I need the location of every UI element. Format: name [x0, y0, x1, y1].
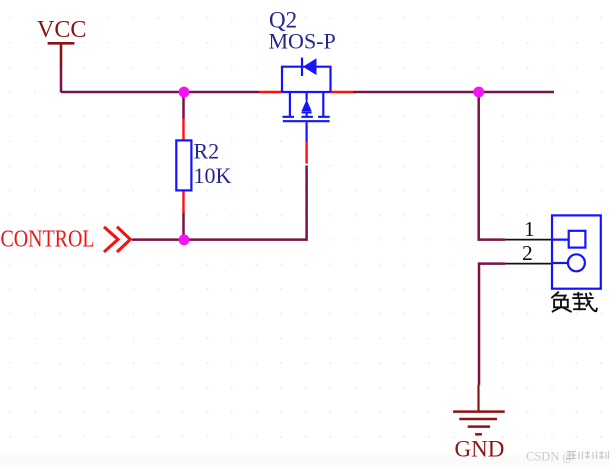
svg-text:CONTROL: CONTROL	[1, 226, 95, 252]
junction node rail/R2	[179, 87, 190, 98]
connector pin2 round contact	[552, 254, 585, 271]
watermark cjk squiggles	[567, 451, 609, 459]
connector pin 1 lead	[505, 239, 552, 241]
wire VCC to rail corner	[61, 66, 62, 91]
port CONTROL chevron	[104, 227, 130, 252]
connector pin 2 lead	[505, 263, 552, 265]
watermark strip	[0, 455, 609, 467]
ground symbol lead	[477, 385, 479, 412]
svg-text:GND: GND	[455, 437, 505, 462]
transistor Q2 MOS-P symbol	[282, 58, 331, 142]
wire main rail y=92 right of Q2	[353, 91, 554, 94]
wire resistor top to rail	[182, 92, 185, 119]
svg-text:MOS-P: MOS-P	[269, 28, 336, 53]
svg-text:10K: 10K	[194, 163, 232, 188]
wire pin 2 down to ground	[479, 264, 505, 385]
resistor R2 body	[176, 140, 191, 190]
junction node control/R2	[179, 234, 190, 245]
svg-text:2: 2	[522, 241, 533, 265]
connector J1 body	[552, 215, 601, 288]
power symbol VCC	[48, 43, 75, 66]
ground symbol GND bars	[453, 412, 505, 435]
svg-text:1: 1	[524, 217, 535, 241]
label 负载 (load) hand-drawn glyphs	[551, 292, 597, 312]
wire resistor bottom to control rail	[182, 213, 185, 240]
Q2 body-diode triangle	[303, 58, 317, 75]
wire right rail down to pin 1	[479, 92, 505, 240]
wire main rail y=92 left of Q2	[61, 91, 259, 94]
wire control row	[132, 166, 307, 240]
junction node rail/load	[473, 87, 484, 98]
svg-text:VCC: VCC	[37, 17, 86, 43]
svg-text:CSDN @: CSDN @	[526, 450, 574, 464]
Q2 bulk arrow	[302, 100, 312, 112]
resistor R2 pin leads	[182, 119, 184, 213]
connector pin1 square contact	[552, 231, 585, 248]
transistor Q2 pin leads (red)	[259, 92, 353, 164]
svg-text:R2: R2	[194, 139, 220, 164]
